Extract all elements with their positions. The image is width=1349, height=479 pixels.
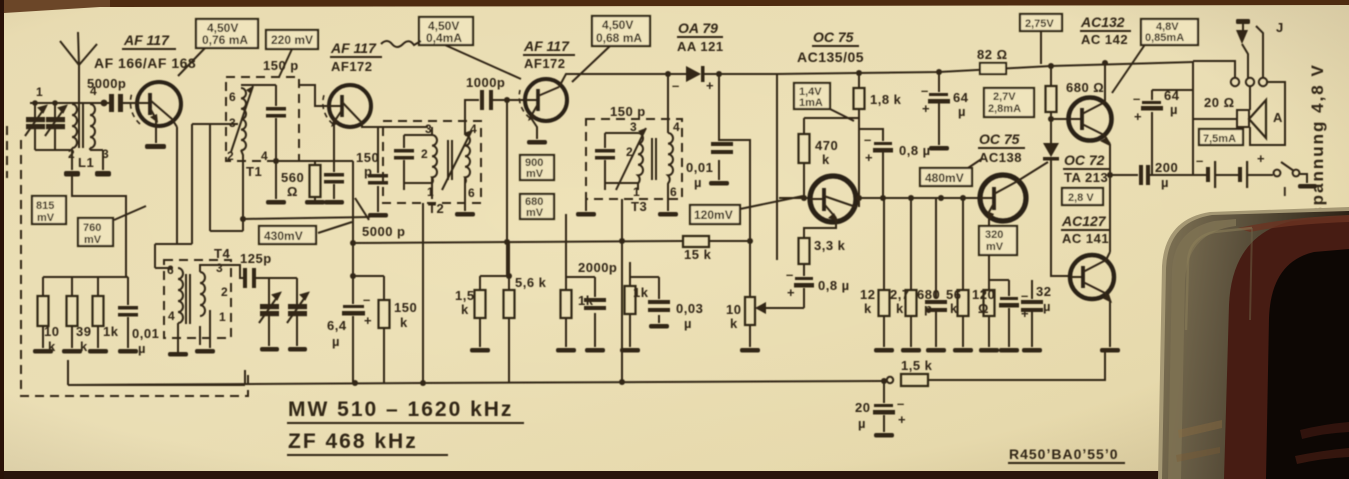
antenna [60, 32, 97, 103]
svg-text:AC135/05: AC135/05 [797, 49, 864, 65]
T1 internal capacitor 150p [275, 85, 277, 161]
svg-text:20: 20 [855, 400, 870, 415]
diode D2 bias [1043, 143, 1059, 161]
pointer 0,85mA box [1112, 43, 1146, 93]
svg-text:2: 2 [68, 147, 75, 161]
resistor R8 1,5k [475, 276, 486, 347]
bias column wire dots on y198 [908, 195, 914, 201]
ground R17 [979, 348, 999, 353]
L1 terminal leads [72, 150, 103, 170]
pointer to 5000p [355, 198, 369, 220]
svg-text:2: 2 [626, 145, 633, 159]
bottom dark strip [0, 471, 1250, 479]
ground R8 [470, 348, 490, 353]
svg-text:OA 79: OA 79 [678, 20, 718, 36]
riser x423 from AGC wire to bus [422, 203, 424, 383]
cabinet glass area [1162, 211, 1349, 479]
wire y219 AGC [243, 217, 370, 219]
wire C3 to tuning caps [256, 277, 297, 279]
T4 right winding bottom lead [200, 310, 210, 348]
svg-text:k: k [80, 339, 88, 354]
cabinet glass ghost reflection [1186, 228, 1252, 330]
cabinet lower wood streaks [1178, 420, 1222, 438]
T4 left winding [178, 268, 183, 323]
main ground bus [68, 381, 884, 385]
capacitor C11 0,8u electrolytic [873, 142, 893, 153]
output node vertical [1109, 144, 1111, 252]
svg-text:10: 10 [726, 302, 741, 317]
svg-text:760: 760 [83, 222, 101, 234]
svg-text:1000p: 1000p [466, 75, 505, 90]
resistor R6 1k [625, 277, 636, 347]
svg-text:220 mV: 220 mV [271, 33, 313, 47]
T3 slash arrow [616, 128, 646, 190]
box measurement 2,8V [1062, 188, 1103, 205]
svg-text:430mV: 430mV [264, 229, 303, 243]
svg-text:0,8 µ: 0,8 µ [899, 143, 931, 158]
ground C8 [649, 324, 669, 329]
resistor R9 5,6k [504, 242, 515, 383]
Q7 emitter to ground [1109, 301, 1111, 347]
svg-text:k: k [864, 301, 872, 316]
capacitor C18 64u (to jack) [1151, 90, 1153, 175]
svg-text:I: I [1283, 184, 1287, 199]
bus risers [68, 360, 245, 385]
svg-text:Ω: Ω [978, 301, 989, 316]
capacitor C19 20u electrolytic [883, 381, 885, 432]
riser x507 to detector line [506, 100, 508, 276]
box measurement 2,75V [1020, 14, 1062, 31]
V2 base feed wire [299, 85, 329, 106]
svg-text:470: 470 [815, 138, 838, 153]
svg-text:µ: µ [694, 175, 702, 190]
ground R6 [620, 348, 640, 353]
svg-text:µ: µ [332, 334, 340, 349]
svg-text:AF 117: AF 117 [523, 38, 570, 54]
svg-text:150 p: 150 p [263, 58, 299, 73]
switch S1 [1274, 162, 1307, 183]
box measurement 815mV [32, 196, 66, 224]
resistor R4 560ohm [310, 161, 321, 200]
box measurement 2,7V 2,8mA [984, 88, 1034, 117]
svg-text:480mV: 480mV [925, 171, 964, 185]
svg-text:µ: µ [138, 341, 146, 356]
ground R3 [88, 349, 108, 354]
wire R10/C10 tops [566, 276, 595, 278]
wire bottom of tuning caps [35, 149, 103, 151]
wire R8/R9 tops [480, 275, 509, 277]
T1 slash arrow [231, 86, 253, 152]
capacitor C2 0,01u [127, 277, 129, 348]
radio cabinet corner (photo object) bottom-right [1158, 207, 1349, 479]
ground C16 [1022, 348, 1042, 353]
svg-text:6: 6 [670, 185, 677, 199]
box measurement 760mV [78, 218, 113, 246]
tuning capacitor CT2a [259, 278, 280, 346]
pointer 2,75V to rail [1040, 31, 1042, 64]
box measurement 120mV [690, 205, 740, 224]
shield dashed stub far left [6, 126, 8, 178]
svg-text:0,01: 0,01 [132, 326, 159, 341]
ground C10 [585, 348, 605, 353]
ground R4 [305, 200, 325, 205]
node V3 base riser [504, 97, 510, 103]
pointer from 0,68mA box [572, 46, 610, 82]
svg-text:k: k [896, 301, 904, 316]
node detector out [747, 238, 753, 244]
svg-text:2,75V: 2,75V [1025, 18, 1054, 30]
resistor R11 470k [799, 118, 810, 198]
resistor R15 2,7k [906, 290, 917, 347]
pointer 120mV to Q4 base [740, 196, 803, 209]
svg-text:1k: 1k [633, 285, 649, 300]
speaker LS [1237, 100, 1266, 138]
box measurement 4,50V 0,76mA [196, 19, 258, 48]
pointer line 220mV [279, 49, 292, 77]
svg-text:A: A [1273, 110, 1283, 125]
Q4 collector wire [856, 197, 980, 199]
svg-text:150 p: 150 p [610, 104, 646, 119]
svg-text:T3: T3 [631, 199, 647, 214]
svg-text:1,5: 1,5 [455, 288, 475, 303]
earphone plug symbol [1236, 19, 1250, 78]
svg-text:–: – [1133, 91, 1141, 106]
V2 collector wire [362, 123, 428, 127]
transistor V2 AF117/AF172 [329, 85, 371, 127]
svg-text:1,8 k: 1,8 k [870, 92, 902, 107]
svg-text:T1: T1 [246, 164, 262, 179]
transformer T2 shield dashed box [383, 121, 481, 203]
T3 internal capacitor [604, 133, 606, 183]
svg-text:AC132: AC132 [1080, 14, 1125, 30]
box measurement 320mV [979, 226, 1017, 255]
ground R15 [901, 348, 921, 353]
battery cell B2 [1238, 161, 1248, 188]
ground V1 emitter [145, 144, 166, 149]
cabinet shadow on paper [1158, 207, 1349, 479]
V1 emitter to ground [155, 119, 157, 143]
box measurement 1,4V 1mA [794, 83, 830, 109]
Q4 collector riser to 1,8k [858, 129, 860, 207]
resistor R16 56k [958, 198, 969, 347]
svg-text:3: 3 [630, 120, 637, 134]
L1 core [79, 104, 83, 148]
resistor R19 680ohm [1046, 66, 1057, 143]
svg-text:µ: µ [1161, 175, 1169, 190]
rail node dots [856, 70, 862, 76]
svg-text:4: 4 [168, 309, 175, 323]
ground C4 [324, 200, 344, 205]
transistor Q7 AC127 [1070, 252, 1114, 303]
svg-text:TA 213: TA 213 [1064, 170, 1108, 185]
ground C7 [709, 181, 729, 186]
resistor R13 3,3k [799, 238, 810, 276]
svg-text:125p: 125p [240, 251, 272, 266]
svg-text:mV: mV [986, 241, 1004, 253]
node T1 secondary [273, 158, 279, 164]
svg-text:µ: µ [1043, 299, 1051, 314]
box measurement 4,8V 0,85mA [1141, 19, 1198, 45]
open node circle [887, 377, 893, 383]
transistor Q5 AC138 [980, 175, 1026, 222]
svg-text:120: 120 [972, 287, 995, 302]
svg-text:OC 75: OC 75 [813, 29, 854, 45]
svg-text:k: k [950, 301, 958, 316]
svg-text:µ: µ [958, 104, 966, 119]
coupling wire to C11 [859, 129, 883, 141]
wire elbow to T4 [155, 244, 192, 268]
resistor R5 15k horizontal [683, 236, 750, 247]
Q5 emitter column: resistor R17 120ohm [984, 222, 995, 347]
resistor R3 1k [93, 277, 104, 348]
wire C15 top to emitter [989, 279, 1009, 281]
wire 64u top to jack line [1152, 89, 1193, 91]
svg-text:1: 1 [36, 85, 43, 99]
ground T4 [168, 352, 188, 357]
wire to bias row [72, 176, 126, 277]
svg-text:–: – [897, 396, 905, 411]
T2 internal capacitor [403, 135, 405, 183]
cabinet wood streaks [1300, 422, 1349, 439]
svg-text:1k: 1k [103, 324, 119, 339]
bus junction dots [420, 380, 426, 386]
svg-text:OC 75: OC 75 [979, 131, 1020, 147]
svg-text:2,8 V: 2,8 V [1068, 192, 1094, 204]
ground R16 [953, 348, 973, 353]
box measurement 680mV [520, 194, 554, 219]
svg-text:2,8mA: 2,8mA [988, 103, 1021, 115]
svg-text:560: 560 [281, 170, 304, 185]
box measurement 4,50V 0,68mA [592, 16, 650, 46]
svg-text:1,5 k: 1,5 k [901, 358, 933, 373]
svg-text:AC138: AC138 [979, 150, 1022, 165]
capacitor C3 125p (series) [243, 268, 256, 288]
ground R2 [62, 349, 82, 354]
box measurement 480mV [920, 168, 972, 186]
diode D1 OA79 [683, 66, 719, 82]
T1 winding (variable, slash) [241, 88, 246, 150]
svg-text:150: 150 [394, 300, 417, 315]
svg-text:320: 320 [985, 229, 1003, 241]
svg-text:OC 72: OC 72 [1064, 152, 1105, 168]
battery link wire [1216, 174, 1238, 176]
svg-text:82 Ω: 82 Ω [977, 47, 1008, 62]
svg-text:J: J [1276, 20, 1284, 35]
ground T2 secondary [464, 199, 466, 211]
box measurement 220mV [266, 30, 318, 49]
ground C19 [874, 433, 894, 438]
svg-text:3: 3 [102, 147, 109, 161]
T4 core [186, 274, 190, 324]
svg-text:0,85mA: 0,85mA [1145, 32, 1184, 44]
Q5 collector diagonal to bias chain [1016, 162, 1048, 182]
ground C14 [926, 348, 946, 353]
capacitor C17 200u series [1139, 165, 1150, 185]
capacitor C12 64u electrolytic [938, 72, 940, 145]
riser 680p column [935, 198, 937, 299]
T3 primary winding (variable) [638, 133, 643, 183]
svg-text:–: – [864, 132, 872, 147]
supply vertical x1193 [1192, 62, 1194, 175]
bottom-right bus [884, 380, 887, 381]
detector line y242 [353, 241, 683, 243]
svg-text:AF 117: AF 117 [123, 32, 170, 48]
svg-text:p: p [924, 301, 932, 316]
svg-text:64: 64 [953, 90, 969, 105]
terminal bar L1 left [64, 171, 80, 177]
T3 pin4 riser to diode rail [667, 74, 669, 125]
T2 secondary winding (variable) [465, 135, 470, 183]
wire diode out [719, 73, 777, 75]
svg-text:ZF 468 kHz: ZF 468 kHz [288, 430, 418, 453]
V2 emitter wire [333, 125, 335, 161]
svg-text:AF172: AF172 [331, 59, 373, 74]
svg-text:4: 4 [90, 84, 97, 98]
tuning capacitor CT2b [287, 278, 308, 346]
resistor R14 12k [879, 290, 890, 347]
ground T1 [266, 200, 286, 205]
svg-text:k: k [822, 152, 830, 167]
svg-text:–: – [672, 78, 680, 93]
ground T4 sec [195, 349, 215, 354]
riser T3 bottom x622 to bus [621, 241, 623, 382]
wire T2 pin4 to C6 [465, 100, 479, 127]
svg-text:680 Ω: 680 Ω [1066, 80, 1104, 95]
capacitor C16 32u [1031, 280, 1033, 347]
shield dashed border left [21, 140, 248, 396]
svg-text:12: 12 [860, 287, 875, 302]
svg-text:+: + [922, 101, 930, 116]
svg-text:µ: µ [1170, 102, 1178, 117]
wire node to 560ohm [276, 160, 353, 162]
svg-text:2: 2 [421, 147, 428, 161]
svg-text:2: 2 [227, 149, 234, 163]
svg-text:AF 166/AF 168: AF 166/AF 168 [94, 55, 196, 71]
svg-text:1: 1 [633, 185, 640, 199]
svg-text:5000 p: 5000 p [362, 224, 405, 239]
pointer from 0,4mA box [445, 45, 521, 79]
svg-text:3: 3 [229, 116, 236, 130]
wire C6 to V3 base [493, 99, 525, 101]
tuning capacitor CT1a [25, 103, 46, 150]
resistor R7 150k [379, 276, 390, 383]
T2 primary winding [432, 135, 437, 183]
pointer 430mV [318, 222, 352, 233]
svg-text:+: + [706, 78, 714, 93]
Q6 collector to rail [1104, 63, 1106, 90]
cabinet maroon top highlight [1238, 215, 1349, 232]
T1 top wire [241, 84, 276, 86]
ground R14 [874, 348, 894, 353]
riser 12k column [883, 198, 885, 290]
ground R10 [556, 348, 576, 353]
cabinet glass bright streak [1168, 219, 1236, 479]
wire battery to switch [1248, 174, 1273, 176]
box measurement 4,50V 0,4mA [419, 17, 473, 45]
Q4 base wire [779, 197, 810, 199]
transistor V3 AF117/AF172 [525, 79, 567, 121]
left ground bus wire [68, 384, 245, 386]
jack contact leads [1193, 26, 1263, 110]
stage rail wire [777, 62, 1193, 74]
ground switch [1298, 184, 1317, 189]
box measurement 900mV [520, 155, 554, 180]
svg-text:680: 680 [917, 287, 940, 302]
V2 shield dashed arc [323, 95, 333, 124]
wire to speaker [1193, 118, 1237, 120]
transistor Q6 AC132 [1069, 90, 1112, 146]
svg-text:120mV: 120mV [694, 208, 733, 222]
svg-text:0,03: 0,03 [676, 301, 703, 316]
Q4 emitter chain [804, 220, 836, 238]
svg-text:AF172: AF172 [524, 56, 566, 71]
T4 left winding bottom to ground [177, 323, 179, 352]
svg-text:mV: mV [526, 168, 544, 180]
svg-text:1: 1 [427, 185, 434, 199]
svg-text:200: 200 [1155, 160, 1178, 175]
svg-text:AC 141: AC 141 [1062, 231, 1109, 246]
svg-text:mV: mV [84, 234, 102, 246]
resistor R20 1,5k horizontal [901, 352, 1105, 386]
T1 pin2 wire down [241, 150, 243, 231]
capacitor C9 6,4u electrolytic [352, 161, 354, 383]
transformer T4 shield dashed box [164, 260, 231, 338]
riser x210 down [210, 124, 243, 231]
T2 core [448, 140, 452, 180]
top dark strip shading [0, 0, 1349, 8]
svg-text:p: p [364, 164, 372, 179]
tuning capacitor CT1b [45, 103, 66, 150]
svg-text:k: k [461, 302, 469, 317]
wire node down to volume pot [749, 241, 751, 297]
svg-text:AC 142: AC 142 [1081, 32, 1128, 47]
svg-text:7,5mA: 7,5mA [1203, 133, 1236, 145]
svg-text:32: 32 [1036, 284, 1051, 299]
svg-text:1: 1 [219, 310, 226, 324]
capacitor C4 (V2 emitter bypass) [333, 161, 335, 199]
Q6 base node [1048, 116, 1054, 122]
capacitor C6 1000p (series) [480, 90, 493, 110]
svg-text:6,4: 6,4 [327, 318, 347, 333]
svg-text:2,7V: 2,7V [993, 91, 1016, 103]
svg-text:–: – [1196, 153, 1204, 168]
resistor R1 10k [38, 277, 49, 348]
box measurement 430mV [259, 226, 316, 244]
resistor R18 82ohm horizontal in rail [980, 63, 1006, 74]
capacitor C13 0,8u electrolytic [794, 277, 814, 288]
svg-text:0,4mA: 0,4mA [426, 31, 462, 45]
volume potentiometer 10k [745, 297, 755, 347]
svg-text:T2: T2 [428, 201, 444, 216]
T2 top loop wires [404, 127, 465, 136]
wire node down to ground [275, 161, 277, 199]
svg-text:–: – [921, 83, 929, 98]
svg-text:815: 815 [36, 200, 54, 212]
svg-text:4: 4 [261, 149, 268, 163]
node top wire [30, 102, 79, 104]
transistor Q4 OC75 [810, 176, 856, 222]
stage left boundary wire [776, 74, 778, 260]
svg-text:Ω: Ω [287, 184, 298, 199]
wire to T1 [192, 123, 238, 125]
ground T3 secondary [658, 212, 678, 217]
box measurement 7,5mA [1199, 129, 1243, 145]
svg-text:39: 39 [76, 324, 91, 339]
svg-text:6: 6 [229, 90, 236, 104]
svg-text:mV: mV [526, 207, 544, 219]
terminal bar L1 right [95, 171, 111, 177]
cabinet dark interior [1266, 249, 1349, 479]
